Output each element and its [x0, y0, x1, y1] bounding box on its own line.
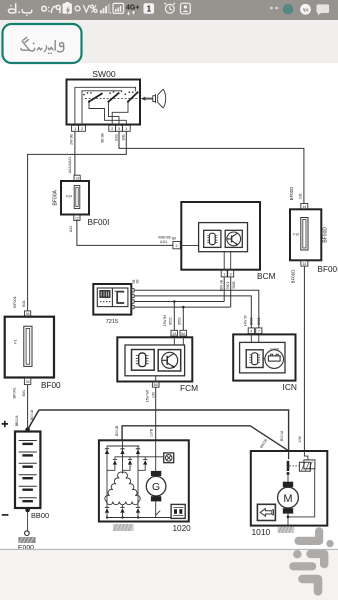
svg-text:BF001: BF001	[12, 295, 17, 308]
svg-text:ICN: ICN	[283, 382, 297, 392]
chart box icon	[113, 3, 124, 13]
svg-text:13: 13	[75, 177, 79, 181]
svg-text:B521: B521	[168, 317, 172, 325]
svg-text:FCM: FCM	[180, 383, 198, 393]
voltage regulator box	[171, 504, 185, 518]
ICN pin stubs	[251, 334, 258, 343]
svg-text:B001A: B001A	[30, 409, 34, 420]
svg-text:34: 34	[26, 380, 30, 384]
svg-text:B001B: B001B	[115, 425, 119, 436]
alternator 1020 body	[99, 440, 189, 521]
bottom diode 2	[120, 505, 124, 518]
BCM bottom pin 2	[228, 252, 234, 277]
SW00 pin 1	[72, 125, 79, 131]
SW00 key symbol	[141, 89, 166, 108]
battery BB00 body	[15, 432, 40, 509]
bottom diode 1	[105, 507, 109, 517]
flasher control module FCM	[117, 337, 192, 381]
SW00 pin 2	[79, 125, 86, 131]
battery positive terminal	[25, 427, 30, 432]
brush lead to bus	[155, 501, 157, 517]
svg-text:10M: 10M	[298, 436, 302, 443]
ground connection eyelet	[25, 531, 30, 536]
svg-text:1A: 1A	[172, 332, 177, 336]
svg-text:7215: 7215	[106, 319, 118, 325]
svg-text:1010: 1010	[252, 527, 271, 537]
svg-text:F10: F10	[293, 232, 299, 236]
junction on bus 4	[182, 306, 185, 309]
wire BF00A to BCM	[77, 220, 173, 245]
rectifier rail 3	[137, 446, 139, 507]
svg-text:9B 9B: 9B 9B	[101, 133, 105, 143]
right side: dots, avatar circles, bubble	[270, 7, 273, 10]
SW00 pin 2 right group	[109, 125, 116, 131]
battery negative terminal	[25, 508, 30, 513]
solenoid contact	[287, 451, 290, 482]
battery cell 1	[19, 441, 37, 444]
wire BCM pin1 to bus	[223, 277, 225, 302]
exciter bus	[115, 456, 164, 458]
ICN pin 4	[248, 328, 254, 334]
battery cell 5	[19, 486, 37, 489]
bus wire 2 to ICN pin 4	[134, 296, 251, 328]
svg-text:15W W6: 15W W6	[145, 390, 149, 402]
svg-text:1020: 1020	[173, 524, 192, 533]
battery cell 6	[19, 498, 37, 501]
bus wire 3 to BCM pin 1	[134, 301, 224, 303]
branch to FCM pin 5A	[182, 307, 184, 330]
svg-text:B01: B01	[22, 390, 26, 396]
tab button	[3, 24, 82, 63]
SW00 internal wiring	[75, 87, 136, 125]
svg-text:9B: 9B	[136, 280, 140, 284]
BCM transistor symbol	[225, 230, 242, 247]
BCM IC symbol	[204, 230, 221, 247]
ICN IC symbol	[246, 350, 263, 368]
rectifier positive bus	[107, 445, 139, 447]
svg-text:A22: A22	[69, 226, 73, 232]
tab label (Persian word drawn as paths)	[21, 37, 64, 54]
ignition switch SW00	[67, 69, 141, 125]
generator G brush top	[151, 471, 161, 476]
FCM bottom pin B4	[152, 382, 159, 388]
svg-text:F24: F24	[66, 195, 72, 199]
connector 7215	[93, 284, 131, 325]
starter motor M brush top	[283, 482, 293, 487]
status bar background	[0, 0, 338, 20]
SW00 pin 1 right group	[122, 125, 130, 131]
starter motor M brush bottom	[283, 508, 293, 513]
bus junction 3	[137, 516, 139, 518]
BCM left pin 2	[173, 241, 199, 248]
svg-text:B01: B01	[22, 300, 26, 306]
generator G	[146, 476, 166, 496]
svg-text:14W 30: 14W 30	[243, 315, 247, 326]
fuse BF00 body	[5, 317, 54, 378]
fuse BF00D bottom pin 14	[301, 260, 308, 266]
SW00 contact 3	[125, 91, 139, 102]
bottom diode 3	[136, 507, 140, 517]
top diode 1	[105, 449, 109, 454]
bus junction 1	[106, 516, 108, 518]
battery cell 4	[19, 475, 37, 478]
rectifier rail 1	[106, 446, 108, 507]
svg-text:BF00: BF00	[41, 381, 61, 390]
fuse BF00A body	[53, 181, 90, 215]
negative bus to regulator	[107, 517, 171, 519]
FCM pin 5A	[180, 330, 187, 336]
svg-text:U30: U30	[151, 392, 155, 398]
FCM pin stubs	[156, 336, 184, 382]
motor ground lead	[287, 514, 289, 527]
SW00 contact 2	[107, 91, 119, 103]
svg-text:BF00D: BF00D	[289, 187, 294, 201]
app toolbar background	[0, 20, 338, 63]
battery cell 3	[19, 463, 37, 466]
body control module BCM	[181, 202, 260, 270]
svg-text:BB10A: BB10A	[15, 415, 19, 426]
wire BF00 to battery	[27, 385, 29, 429]
svg-text:B500: B500	[250, 317, 254, 325]
svg-text:B6: B6	[172, 236, 176, 240]
notification square 1	[144, 3, 155, 14]
fuse BF00A bottom pin 12	[74, 215, 80, 220]
charge warning lamp	[164, 453, 174, 463]
svg-text:AA3/AA21: AA3/AA21	[68, 157, 72, 174]
svg-text:B03: B03	[115, 134, 119, 140]
starter motor M	[278, 487, 299, 508]
svg-text:B502: B502	[177, 317, 181, 325]
bus wire 1 to ICN pin 7	[134, 290, 259, 328]
fuse box BF00A top pin 13	[74, 175, 80, 180]
ICN pin 7	[256, 328, 262, 334]
fuse BF00D body	[290, 209, 321, 260]
svg-text:B501: B501	[257, 317, 261, 325]
svg-text:10B: 10B	[122, 134, 126, 141]
svg-text:10B: 10B	[299, 193, 303, 200]
svg-text:V1000: V1000	[270, 347, 279, 351]
fuse element F10	[293, 218, 308, 251]
FCM inner frame	[125, 345, 185, 376]
regulator tap tick	[156, 511, 161, 516]
bus junction 2	[121, 516, 123, 518]
exciter diode 2	[123, 457, 133, 471]
bus wire 4 to BCM pin 2	[134, 306, 231, 308]
ICN battery gauge symbol V1000	[263, 347, 283, 369]
svg-text:34: 34	[26, 312, 30, 316]
fuse element F24	[66, 186, 80, 209]
wire FCM to alternator 1020	[155, 387, 157, 440]
fuse box BF00D top pin 14	[301, 204, 308, 210]
fuse box BF00 top pin 34	[25, 311, 31, 316]
field wire into brush	[155, 440, 157, 471]
battery diagonal lead	[28, 410, 39, 429]
junction on bus 3	[173, 300, 176, 303]
BCM bottom pin 1	[221, 252, 227, 277]
alarm clock icon	[164, 3, 175, 13]
generator G brush bottom	[151, 496, 161, 501]
wire SW00 pin1 to fuse BF00A	[74, 131, 76, 175]
BCM inner module frame	[199, 223, 248, 252]
svg-text:B4: B4	[154, 383, 158, 387]
svg-text:4080 B6: 4080 B6	[158, 236, 171, 240]
wire BCM pin2 to bus	[230, 277, 232, 307]
battery cell 2	[19, 452, 37, 455]
svg-text:BF00D: BF00D	[291, 270, 296, 284]
badge icon	[181, 3, 191, 14]
branch to FCM pin 1A	[173, 302, 175, 331]
FCM pin 1A	[171, 330, 178, 336]
starter chassis ground hatch	[278, 527, 295, 533]
rectifier rail 2	[122, 440, 124, 473]
SW00 pin 3 right group	[116, 125, 123, 131]
fuse BF00 bottom pin 34	[24, 378, 30, 385]
solenoid dashed link	[289, 465, 299, 467]
FCM IC symbol	[132, 350, 155, 371]
exciter diode 3	[138, 457, 147, 471]
svg-text:F1: F1	[14, 339, 18, 343]
svg-text:BF00D: BF00D	[323, 227, 329, 243]
svg-text:1: 1	[147, 5, 152, 14]
57% (Persian digits)	[75, 5, 97, 12]
ground E000	[18, 537, 36, 551]
top diode 2	[120, 449, 124, 454]
svg-text:BF00A: BF00A	[53, 189, 59, 205]
svg-text:BF00I: BF00I	[318, 265, 338, 274]
wire SW00 pin3 to fuse BF00D	[119, 131, 304, 203]
svg-text:7: 7	[258, 329, 260, 333]
fuse element F1	[14, 326, 33, 366]
wire BF00D to starter solenoid	[303, 266, 305, 451]
top diode 3	[136, 449, 140, 454]
battery BB00 plus sign	[2, 421, 8, 427]
svg-text:SW00: SW00	[92, 69, 116, 79]
ICN inner frame	[240, 342, 285, 373]
battery positive cable B001A	[39, 410, 289, 451]
svg-text:2W 9B: 2W 9B	[70, 134, 74, 145]
svg-text:B001A: B001A	[280, 430, 284, 441]
SW00 dashed selector line	[85, 98, 140, 100]
starter pictogram box	[257, 504, 275, 520]
stator winding delta	[105, 472, 140, 505]
svg-text:BB00: BB00	[31, 511, 49, 520]
coil return junction	[287, 516, 290, 519]
signal bars	[100, 4, 111, 14]
instrument cluster ICN	[233, 334, 295, 380]
status bar left: time (Persian) drawn as strokes	[8, 4, 60, 16]
SW00 contact 1	[83, 92, 102, 103]
svg-text:BCM: BCM	[257, 271, 276, 281]
svg-text:15W B4: 15W B4	[163, 315, 167, 327]
svg-text:YA: YA	[303, 7, 310, 12]
battery minus sign	[2, 514, 9, 516]
svg-text:BF00I: BF00I	[88, 218, 110, 227]
svg-text:G: G	[152, 482, 160, 493]
svg-text:14: 14	[302, 262, 306, 266]
exciter diode 1	[107, 457, 117, 471]
svg-text:A111: A111	[160, 240, 168, 244]
svg-text:18W 9B: 18W 9B	[220, 280, 224, 291]
7215 terminal tabs	[131, 289, 134, 309]
wire SW00 right pin1 to fuse BF00	[28, 131, 127, 311]
svg-text:M: M	[283, 493, 292, 505]
svg-text:BF001: BF001	[12, 387, 16, 398]
starter motor 1010 body	[251, 451, 327, 526]
battery icon	[63, 3, 72, 14]
svg-text:4G+: 4G+	[126, 5, 139, 12]
svg-text:300B: 300B	[232, 281, 236, 288]
battery ground lead	[27, 512, 29, 531]
svg-text:4: 4	[250, 329, 252, 333]
solenoid coil	[299, 451, 315, 471]
svg-text:5A: 5A	[181, 332, 186, 336]
svg-text:95C1: 95C1	[226, 281, 230, 289]
coil return wire	[290, 469, 315, 517]
FCM transistor symbol	[158, 350, 181, 371]
alternator cable B001B	[122, 426, 289, 451]
svg-text:12: 12	[75, 216, 79, 220]
svg-text:107B: 107B	[149, 428, 153, 437]
alternator chassis ground hatch	[113, 524, 134, 531]
